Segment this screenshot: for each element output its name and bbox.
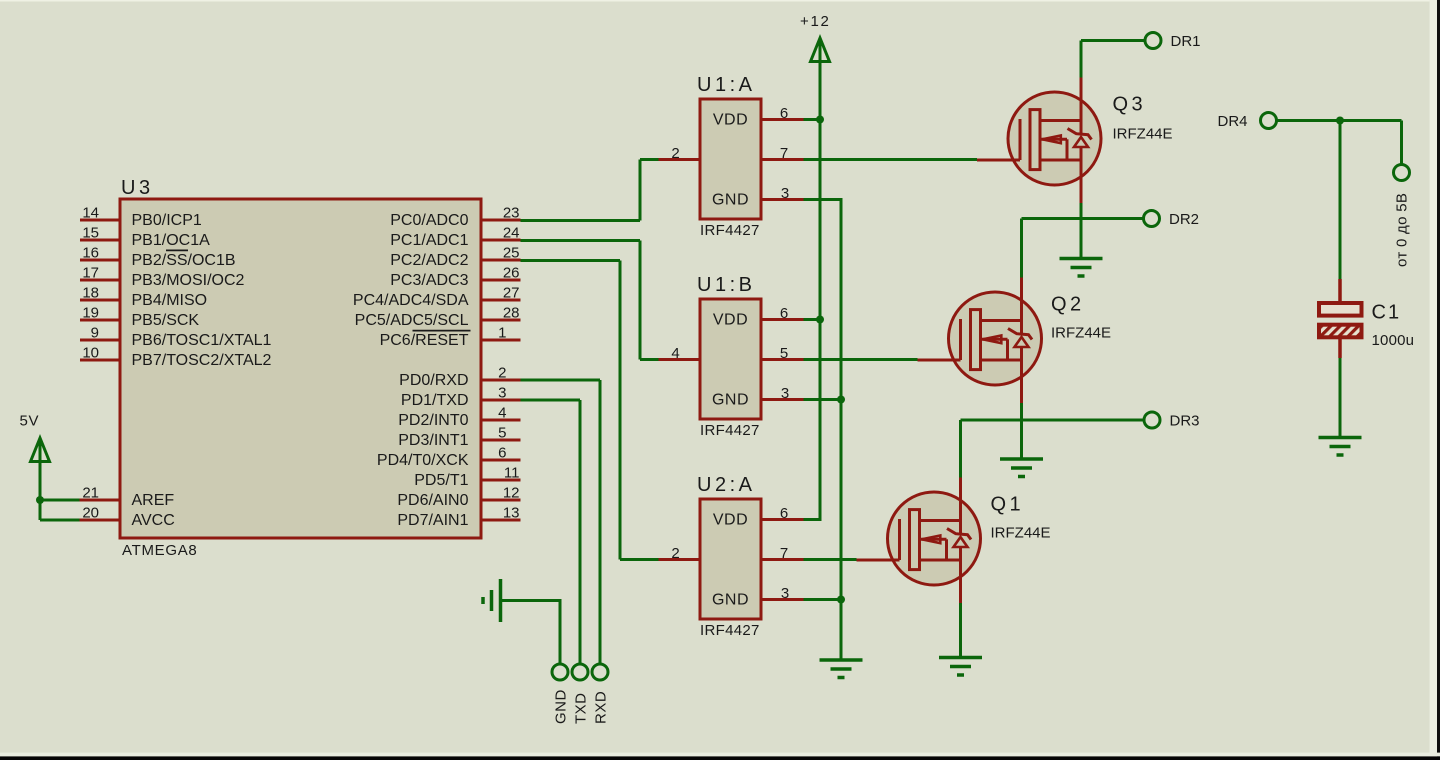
- svg-text:PD6/AIN0: PD6/AIN0: [397, 492, 468, 509]
- svg-text:3: 3: [781, 385, 789, 402]
- svg-text:IRFZ44E: IRFZ44E: [1113, 126, 1173, 143]
- svg-text:21: 21: [82, 485, 99, 502]
- svg-text:1: 1: [498, 325, 506, 342]
- svg-text:PD4/T0/XCK: PD4/T0/XCK: [377, 452, 469, 469]
- svg-text:4: 4: [498, 405, 506, 422]
- svg-text:18: 18: [82, 285, 99, 302]
- svg-text:PC5/ADC5/SCL: PC5/ADC5/SCL: [355, 312, 469, 329]
- svg-text:PD5/T1: PD5/T1: [414, 472, 468, 489]
- svg-text:1000u: 1000u: [1372, 332, 1415, 349]
- svg-text:PC1/ADC1: PC1/ADC1: [390, 232, 468, 249]
- svg-text:25: 25: [503, 245, 520, 262]
- svg-text:+12: +12: [800, 13, 831, 30]
- svg-text:IRFZ44E: IRFZ44E: [1051, 325, 1111, 342]
- svg-text:DR4: DR4: [1217, 113, 1247, 130]
- svg-text:от 0 до 5В: от 0 до 5В: [1394, 193, 1411, 267]
- svg-text:U1:B: U1:B: [697, 274, 755, 296]
- svg-text:16: 16: [82, 245, 99, 262]
- svg-text:ATMEGA8: ATMEGA8: [122, 542, 197, 559]
- svg-text:6: 6: [498, 445, 506, 462]
- svg-text:2: 2: [498, 365, 506, 382]
- svg-text:PC3/ADC3: PC3/ADC3: [390, 272, 468, 289]
- svg-text:RXD: RXD: [593, 691, 610, 724]
- svg-text:15: 15: [82, 225, 99, 242]
- svg-text:GND: GND: [712, 592, 749, 609]
- svg-text:11: 11: [504, 465, 520, 482]
- svg-text:19: 19: [82, 305, 99, 322]
- svg-text:26: 26: [503, 265, 520, 282]
- svg-text:PC4/ADC4/SDA: PC4/ADC4/SDA: [353, 292, 469, 309]
- svg-text:IRF4427: IRF4427: [700, 222, 760, 239]
- svg-text:PD2/INT0: PD2/INT0: [398, 412, 468, 429]
- svg-text:28: 28: [503, 305, 520, 322]
- svg-text:Q3: Q3: [1113, 94, 1147, 116]
- svg-text:3: 3: [781, 585, 789, 602]
- svg-text:6: 6: [780, 105, 788, 122]
- svg-text:5V: 5V: [20, 413, 40, 430]
- svg-text:TXD: TXD: [573, 693, 590, 725]
- svg-text:3: 3: [498, 385, 506, 402]
- svg-text:DR3: DR3: [1170, 413, 1200, 430]
- svg-text:17: 17: [82, 265, 99, 282]
- svg-text:PB6/TOSC1/XTAL1: PB6/TOSC1/XTAL1: [132, 332, 272, 349]
- svg-text:10: 10: [82, 345, 99, 362]
- svg-text:DR1: DR1: [1171, 33, 1201, 50]
- svg-text:24: 24: [503, 225, 520, 242]
- svg-text:PB4/MISO: PB4/MISO: [132, 292, 208, 309]
- svg-text:DR2: DR2: [1169, 211, 1199, 228]
- svg-text:IRF4427: IRF4427: [700, 622, 760, 639]
- svg-text:PD0/RXD: PD0/RXD: [399, 372, 468, 389]
- svg-text:PC6/RESET: PC6/RESET: [380, 332, 469, 349]
- svg-text:GND: GND: [712, 392, 749, 409]
- svg-text:PB0/ICP1: PB0/ICP1: [132, 212, 202, 229]
- svg-text:14: 14: [82, 205, 99, 222]
- svg-text:7: 7: [780, 145, 788, 162]
- svg-text:PB3/MOSI/OC2: PB3/MOSI/OC2: [132, 272, 245, 289]
- svg-text:AVCC: AVCC: [132, 512, 175, 529]
- svg-text:Q1: Q1: [991, 494, 1025, 516]
- svg-text:9: 9: [91, 325, 99, 342]
- svg-text:VDD: VDD: [713, 312, 748, 329]
- svg-text:PD3/INT1: PD3/INT1: [398, 432, 468, 449]
- svg-text:2: 2: [671, 545, 679, 562]
- svg-text:5: 5: [780, 345, 788, 362]
- svg-text:PD1/TXD: PD1/TXD: [401, 392, 469, 409]
- svg-text:23: 23: [503, 205, 520, 222]
- svg-text:PB5/SCK: PB5/SCK: [132, 312, 200, 329]
- svg-text:VDD: VDD: [713, 112, 748, 129]
- svg-text:IRFZ44E: IRFZ44E: [991, 525, 1051, 542]
- svg-text:PB1/OC1A: PB1/OC1A: [132, 232, 211, 249]
- svg-text:27: 27: [503, 285, 520, 302]
- svg-text:7: 7: [780, 545, 788, 562]
- svg-text:VDD: VDD: [713, 512, 748, 529]
- svg-text:PD7/AIN1: PD7/AIN1: [397, 512, 468, 529]
- svg-text:12: 12: [503, 485, 520, 502]
- svg-text:PC2/ADC2: PC2/ADC2: [390, 252, 468, 269]
- svg-text:4: 4: [671, 345, 679, 362]
- svg-text:PC0/ADC0: PC0/ADC0: [390, 212, 468, 229]
- svg-text:C1: C1: [1372, 301, 1402, 323]
- svg-text:13: 13: [503, 505, 520, 522]
- svg-text:3: 3: [781, 185, 789, 202]
- svg-text:20: 20: [82, 505, 99, 522]
- svg-text:U3: U3: [121, 177, 154, 199]
- svg-text:6: 6: [780, 305, 788, 322]
- svg-text:U1:A: U1:A: [697, 74, 755, 96]
- svg-text:Q2: Q2: [1051, 294, 1085, 316]
- svg-text:U2:A: U2:A: [697, 474, 755, 496]
- svg-text:PB2/SS/OC1B: PB2/SS/OC1B: [132, 252, 236, 269]
- svg-text:2: 2: [671, 145, 679, 162]
- svg-text:IRF4427: IRF4427: [700, 422, 760, 439]
- svg-text:GND: GND: [712, 192, 749, 209]
- svg-text:PB7/TOSC2/XTAL2: PB7/TOSC2/XTAL2: [132, 352, 272, 369]
- svg-text:AREF: AREF: [132, 492, 175, 509]
- svg-text:GND: GND: [553, 689, 570, 724]
- svg-text:6: 6: [780, 505, 788, 522]
- svg-text:5: 5: [498, 425, 506, 442]
